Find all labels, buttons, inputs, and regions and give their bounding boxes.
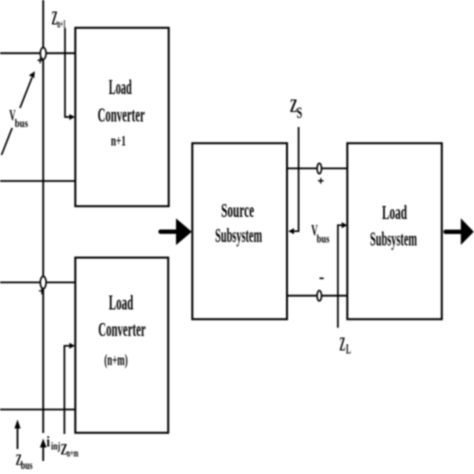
svg-text:Load: Load	[109, 75, 132, 99]
svg-text:(n+m): (n+m)	[104, 352, 127, 369]
label Z_S	[290, 97, 302, 122]
wire: return rail 1 (to Load Converter n+1)	[0, 180, 75, 182]
wire: injection line with arrow into converter n+m	[64, 343, 75, 434]
svg-text:n+m: n+m	[67, 448, 79, 460]
node: positive bus terminal (ellipse)	[317, 163, 321, 173]
svg-text:Load: Load	[382, 202, 407, 224]
wire: bus rail 1 (top, to Load Converter n+1)	[0, 52, 75, 54]
wire: return rail 2 (to Load Converter n+m)	[0, 409, 75, 411]
wire: Z_S line with arrow into Source Subsystem right edge	[288, 127, 298, 234]
label Z_L	[339, 333, 351, 357]
label: + polarity at node n+m	[39, 289, 44, 295]
svg-text:i: i	[46, 435, 50, 451]
svg-text:Z: Z	[339, 333, 345, 355]
svg-text:Subsystem: Subsystem	[370, 229, 417, 251]
node: negative bus terminal (ellipse)	[317, 291, 321, 301]
svg-text:bus: bus	[15, 116, 28, 130]
svg-text:L: L	[346, 343, 351, 358]
label: - polarity on negative bus	[320, 277, 324, 279]
block: Source Subsystem box	[192, 143, 287, 319]
svg-text:Converter: Converter	[98, 104, 145, 126]
wire: bus rail 2 (to Load Converter n+m)	[0, 281, 75, 283]
svg-text:Source: Source	[221, 200, 254, 222]
wire: V_bus pointer arrow (diagonal)	[2, 71, 35, 155]
node: bus tap for converter n+1 (ellipse)	[40, 48, 46, 60]
wire: Z_L line with arrow into Load Subsystem left edge	[338, 222, 347, 328]
label: + polarity on positive bus	[318, 178, 324, 184]
block: Load Converter n+m box	[75, 258, 168, 433]
svg-text:n+1: n+1	[111, 134, 126, 150]
svg-text:S: S	[297, 105, 303, 122]
node: bus tap for converter n+m (ellipse)	[40, 276, 46, 288]
label: + polarity at node n+1	[38, 58, 43, 64]
wire: main vertical bus line	[42, 0, 44, 433]
wire: positive bus between subsystems	[287, 167, 347, 169]
label i_inj Z_n+m	[46, 435, 78, 460]
wire: Z_n+1 injection line with arrow into converter n+1	[65, 28, 75, 120]
label Z_n+1	[52, 8, 66, 30]
label V_bus (middle)	[311, 223, 329, 246]
svg-text:Load: Load	[109, 291, 134, 315]
label Z_bus	[16, 452, 33, 472]
block: Load Subsystem box	[347, 143, 442, 319]
svg-text:Subsystem: Subsystem	[215, 225, 262, 247]
wire: i_inj current arrow on bus	[40, 439, 47, 462]
wire: Z_bus pointer arrow (up)	[14, 420, 20, 450]
arrow: big output arrow from Load Subsystem	[446, 218, 474, 245]
svg-text:Converter: Converter	[98, 319, 145, 341]
label V_bus (left)	[8, 108, 30, 130]
svg-text:inj: inj	[51, 441, 60, 453]
wire: negative bus between subsystems	[287, 295, 347, 297]
svg-text:bus: bus	[21, 458, 33, 472]
block: Load Converter n+1 box	[75, 28, 168, 206]
arrow: big input arrow into Source Subsystem	[161, 218, 192, 245]
svg-text:bus: bus	[317, 232, 330, 246]
